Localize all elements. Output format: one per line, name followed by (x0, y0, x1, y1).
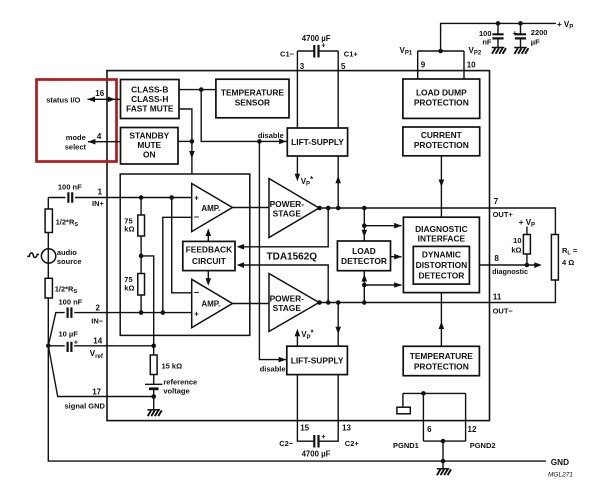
capacitor 100nF IN+ plates (68, 192, 72, 203)
wire PGND join (423, 441, 465, 468)
svg-text:TEMPERATURE: TEMPERATURE (221, 88, 285, 98)
audio source circle (41, 249, 55, 263)
block DYNAMIC DISTORTION DETECTOR (413, 246, 469, 284)
power-stage PS1 (top) (269, 179, 319, 238)
svg-text:IN−: IN− (91, 317, 104, 326)
svg-text:select: select (65, 142, 87, 151)
wire +VP rail top (441, 23, 556, 51)
wire pin 12 (465, 393, 467, 441)
svg-text:GND: GND (551, 458, 569, 467)
svg-text:disable: disable (258, 131, 284, 140)
arrowhead VP* top down (295, 174, 301, 182)
svg-text:−: − (194, 287, 199, 297)
svg-text:CLASS-H: CLASS-H (131, 94, 168, 104)
junction GND line (441, 459, 446, 464)
junction diagnostic 10k (525, 263, 530, 268)
svg-text:signal GND: signal GND (65, 402, 106, 411)
junction +VP at bracket (438, 49, 443, 54)
wire status I/O pin 16 (88, 98, 121, 100)
wire AMP2 output to power stage (232, 303, 269, 305)
svg-text:16: 16 (95, 89, 104, 98)
arrowhead status I/O right (108, 97, 116, 103)
wire OUT- feedback tap (240, 265, 328, 303)
svg-text:11: 11 (493, 292, 502, 301)
svg-text:CIRCUIT: CIRCUIT (192, 256, 227, 266)
arrowhead lift2 down (335, 327, 341, 335)
text POWER-STAGE top (270, 199, 305, 218)
wire pin 10 (463, 51, 465, 79)
junction OUT+ tip (317, 206, 322, 211)
svg-text:µF: µF (531, 38, 540, 47)
svg-text:13: 13 (342, 424, 351, 433)
junction mute node (190, 139, 195, 144)
text AMP. top with +/- (194, 194, 221, 222)
svg-text:10: 10 (513, 236, 521, 245)
svg-text:RL =: RL = (562, 246, 578, 256)
junction diag top branch (362, 223, 367, 228)
wire load detector bottom to OUT- (363, 271, 365, 303)
junction IN- divider (139, 310, 144, 315)
junction IN- amp1 (161, 310, 166, 315)
svg-text:4700 µF: 4700 µF (302, 34, 331, 43)
svg-text:2200: 2200 (531, 28, 548, 37)
junction divider mid (139, 254, 144, 259)
svg-text:FAST MUTE: FAST MUTE (126, 103, 174, 113)
capacitor 100nF supply plates (492, 34, 503, 38)
svg-text:AMP.: AMP. (201, 204, 220, 213)
junction 2200uF tap (518, 21, 523, 26)
svg-text:OUT−: OUT− (493, 306, 514, 315)
wire signal GND pin 17 (48, 346, 153, 397)
svg-text:+: + (194, 309, 199, 318)
IC outline TDA1562Q (107, 71, 490, 421)
svg-text:6: 6 (427, 425, 432, 434)
wire STANDBY to mute node (178, 140, 192, 142)
svg-text:CURRENT: CURRENT (421, 130, 463, 140)
arrowhead load det up (362, 274, 368, 282)
ground symbol below 2200uF (514, 48, 528, 54)
junction PGND mid (441, 439, 446, 444)
resistor 1/2*RS upper (45, 209, 52, 233)
wire 75k divider chain (140, 198, 142, 313)
wire temperature protection to diagnostic interface (440, 293, 442, 347)
block CLASS-B CLASS-H FAST MUTE (121, 80, 180, 119)
wire pin 15 C2- (297, 375, 313, 442)
block FEEDBACK CIRCUIT (183, 241, 235, 270)
arrowhead feedback up (206, 229, 212, 237)
svg-text:+: + (513, 29, 518, 38)
resistor 1/2*RS lower (45, 278, 52, 298)
battery reference voltage (145, 384, 162, 389)
wire pin 3 C1- (296, 51, 298, 128)
wire pin 5 C1+ (337, 51, 339, 128)
svg-text:8: 8 (494, 254, 499, 263)
svg-text:DETECTOR: DETECTOR (418, 271, 464, 281)
svg-text:source: source (57, 257, 82, 266)
block TEMPERATURE PROTECTION (403, 346, 479, 375)
wire pin 13 C2+ (319, 375, 338, 442)
junction source common (46, 344, 51, 349)
arrowhead load detector down (362, 230, 368, 238)
svg-text:DISTORTION: DISTORTION (416, 260, 468, 270)
junction 100nF tap (496, 21, 501, 26)
wire 2200uF to ground (520, 39, 522, 47)
text AMP. bottom with -/+ (194, 287, 221, 318)
wire Vref pin 14 (48, 345, 153, 347)
svg-text:SENSOR: SENSOR (235, 98, 270, 108)
text tilde audio source (27, 253, 39, 258)
wire feedback to AMP1 (207, 230, 209, 241)
svg-text:kΩ: kΩ (124, 283, 134, 292)
svg-text:nF: nF (482, 38, 492, 47)
svg-text:disable: disable (260, 365, 286, 374)
wire VP1/VP2 bracket (418, 50, 464, 52)
svg-text:LIFT-SUPPLY: LIFT-SUPPLY (291, 356, 344, 366)
wire substrate tab (402, 393, 404, 407)
wire OUT+ to load detector (363, 208, 365, 241)
svg-text:kΩ: kΩ (511, 245, 521, 254)
svg-text:PROTECTION: PROTECTION (414, 98, 469, 108)
resistor RL load (551, 235, 558, 281)
resistor 75k lower (138, 274, 145, 296)
wire pins 6/12 PGND bracket (403, 392, 466, 394)
arrowhead feedback down (206, 278, 212, 286)
capacitor 100nF IN- plates (68, 307, 72, 318)
arrowhead VP* bottom up (295, 329, 301, 337)
junction OUT- feedback (326, 300, 331, 305)
wire OUT+ pin 7 to load (319, 208, 555, 235)
svg-text:100 nF: 100 nF (59, 298, 83, 307)
junction OUT- load detector (362, 300, 367, 305)
op-amp A1 (top AMP) (192, 184, 233, 232)
block LIFT-SUPPLY (bottom) U-LS2 (287, 346, 348, 374)
block TEMPERATURE SENSOR (216, 79, 289, 118)
svg-text:C2+: C2+ (345, 439, 360, 448)
substrate tab symbol (397, 407, 410, 414)
svg-text:−: − (194, 212, 199, 222)
wire feedback to AMP2 (207, 271, 209, 284)
svg-text:PROTECTION: PROTECTION (414, 362, 469, 372)
resistor 75k upper (138, 215, 145, 236)
svg-text:TEMPERATURE: TEMPERATURE (410, 351, 474, 361)
svg-text:5: 5 (341, 62, 346, 71)
svg-text:14: 14 (93, 336, 102, 345)
svg-text:STANDBY: STANDBY (129, 130, 169, 140)
resistor 15k (150, 355, 157, 375)
wire diagnostic pin 8 (479, 264, 540, 266)
svg-text:DYNAMIC: DYNAMIC (422, 250, 461, 260)
red highlight box around status/mode pins (37, 80, 117, 162)
svg-text:10: 10 (467, 61, 476, 70)
wire IN+ to bottom AMP inverting input (172, 198, 192, 293)
svg-text:4 Ω: 4 Ω (562, 258, 574, 267)
arrowhead diag bottom in (394, 282, 402, 288)
wire branch to diagnostic interface bottom-left (364, 284, 401, 286)
svg-text:MGL271: MGL271 (548, 472, 573, 479)
wire 15k to reference voltage to ground (153, 346, 155, 410)
svg-text:status I/O: status I/O (46, 95, 80, 104)
wire current protection to output (440, 156, 442, 217)
svg-text:STAGE: STAGE (273, 303, 302, 313)
arrowhead load det to diag (394, 254, 402, 260)
svg-text:CLASS-B: CLASS-B (131, 84, 168, 94)
capacitor C1 4700uF plates (314, 45, 318, 58)
wire 100nF decoupling branch (497, 23, 499, 34)
wire branch to diagnostic interface top-left (364, 225, 401, 227)
svg-text:15: 15 (300, 424, 309, 433)
wire VP* arrow bottom power stage (296, 334, 298, 346)
wire 100nF to ground (497, 39, 499, 47)
op-amp A2 (bottom AMP) (192, 279, 233, 327)
block DIAGNOSTIC INTERFACE (403, 217, 479, 292)
svg-text:C1−: C1− (280, 49, 295, 58)
arrowhead mute down (189, 151, 195, 159)
svg-text:9: 9 (421, 61, 426, 70)
arrowhead current protection down (439, 180, 445, 188)
svg-text:C2−: C2− (279, 439, 294, 448)
svg-text:+: + (321, 432, 326, 441)
svg-text:PROTECTION: PROTECTION (414, 140, 469, 150)
svg-text:DETECTOR: DETECTOR (341, 256, 387, 266)
svg-text:LIFT-SUPPLY: LIFT-SUPPLY (291, 137, 344, 147)
wire OUT- to bottom lift-supply (337, 303, 339, 347)
arrowhead feedback in bottom (237, 262, 245, 268)
wire C1 capacitor link (297, 50, 338, 52)
svg-text:diagnostic: diagnostic (492, 267, 528, 276)
junction IN+ divider (139, 195, 144, 200)
capacitor C2 4700uF plates (314, 435, 318, 448)
junction disable split (257, 139, 262, 144)
svg-text:17: 17 (92, 387, 101, 396)
ground symbol below 100nF (492, 48, 506, 54)
ground symbol reference voltage (147, 410, 161, 416)
svg-text:100 nF: 100 nF (58, 182, 82, 191)
svg-text:PGND2: PGND2 (470, 441, 496, 450)
wire disable line to top LIFT-SUPPLY (201, 90, 287, 142)
junction PGND bracket (421, 391, 426, 396)
svg-text:IN+: IN+ (92, 199, 105, 208)
resistor 10k (523, 235, 530, 255)
junction IN+ cross-feed (169, 195, 174, 200)
svg-text:12: 12 (468, 425, 477, 434)
wire VP* arrow top power stage (296, 156, 298, 176)
wire IN- pin 2 (48, 313, 191, 346)
svg-text:MUTE: MUTE (137, 140, 161, 150)
svg-text:kΩ: kΩ (124, 225, 134, 234)
wire IN+ pin 1 (48, 197, 191, 199)
svg-text:+: + (74, 338, 79, 347)
junction class-B/temp sensor (199, 87, 204, 92)
svg-text:2: 2 (95, 303, 100, 312)
wire pin 6 (422, 393, 424, 441)
svg-text:+: + (321, 41, 326, 50)
svg-text:PGND1: PGND1 (393, 441, 419, 450)
block CURRENT PROTECTION (403, 127, 480, 156)
wire CLASS-B mute control down into amp block (179, 109, 192, 174)
svg-text:reference: reference (163, 378, 197, 387)
svg-text:C1+: C1+ (344, 49, 359, 58)
svg-text:3: 3 (300, 62, 305, 71)
svg-text:FEEDBACK: FEEDBACK (186, 244, 233, 254)
wire left source rail and bottom GND line (48, 198, 546, 462)
block LOAD DUMP PROTECTION (403, 79, 480, 118)
wire lift-supply top to OUT+ (337, 156, 339, 208)
capacitor 10uF plates (68, 342, 72, 352)
wire OUT+ feedback tap (240, 208, 328, 247)
ground symbol PGND (437, 469, 451, 475)
wire mode select pin 4 (88, 141, 121, 143)
svg-text:7: 7 (494, 197, 499, 206)
wire 10k pull-up (526, 227, 528, 266)
arrowhead disable bottom right (279, 357, 287, 363)
svg-text:4: 4 (97, 132, 102, 141)
junction OUT+ load detector (362, 206, 367, 211)
arrowhead mode select left (88, 139, 96, 145)
wire disable vertical to bottom LIFT-SUPPLY (259, 141, 286, 359)
arrowhead feedback in top (237, 244, 245, 250)
svg-text:OUT+: OUT+ (493, 210, 514, 219)
inner amplifier block box (120, 174, 250, 335)
arrowhead diag top in (394, 223, 402, 229)
wire top AMP inverting input to IN- (163, 217, 192, 312)
svg-text:mode: mode (66, 133, 86, 142)
svg-text:1: 1 (98, 187, 103, 196)
junction diag bottom branch (362, 283, 367, 288)
wire divider tap to Vref (141, 256, 154, 346)
svg-text:TDA1562Q: TDA1562Q (267, 252, 318, 263)
svg-text:LOAD: LOAD (352, 246, 376, 256)
capacitor 2200uF plates (515, 34, 526, 38)
block LOAD DETECTOR (337, 241, 390, 271)
text POWER-STAGE bottom (270, 293, 305, 312)
svg-text:ON: ON (143, 149, 156, 159)
wire load detector to diagnostic interface (391, 256, 402, 258)
svg-text:INTERFACE: INTERFACE (418, 234, 466, 244)
svg-text:AMP.: AMP. (201, 300, 220, 309)
arrowhead status I/O left (88, 97, 96, 103)
svg-text:15 kΩ: 15 kΩ (162, 361, 183, 370)
svg-text:STAGE: STAGE (273, 209, 302, 219)
wire 2200uF branch (520, 23, 522, 34)
wire CLASS-B to temperature sensor (179, 89, 216, 91)
wire pin 9 (417, 51, 419, 79)
svg-text:LOAD DUMP: LOAD DUMP (416, 88, 467, 98)
arrowhead disable top right (279, 139, 287, 145)
block LIFT-SUPPLY (top) U-LS1 (287, 128, 347, 156)
svg-text:+: + (194, 194, 199, 203)
arrowhead temp protection up (439, 322, 445, 330)
arrowhead diagnostic out (534, 262, 542, 268)
junction signal GND (151, 394, 156, 399)
svg-text:4700 µF: 4700 µF (302, 449, 331, 458)
junction OUT+ lift (336, 206, 341, 211)
svg-text:DIAGNOSTIC: DIAGNOSTIC (415, 224, 468, 234)
svg-text:voltage: voltage (163, 386, 189, 395)
junction OUT+ feedback (326, 206, 331, 211)
wire AMP1 output to power stage (232, 207, 269, 209)
svg-text:audio: audio (57, 248, 77, 257)
arrowhead lift1 up (335, 176, 341, 184)
power-stage PS2 (bottom) (269, 274, 319, 332)
wire OUT- pin 11 to load (319, 280, 555, 303)
junction OUT- tip (317, 300, 322, 305)
junction OUT- lift (336, 300, 341, 305)
block STANDBY MUTE ON (121, 128, 179, 165)
junction Vref 15k (151, 344, 156, 349)
